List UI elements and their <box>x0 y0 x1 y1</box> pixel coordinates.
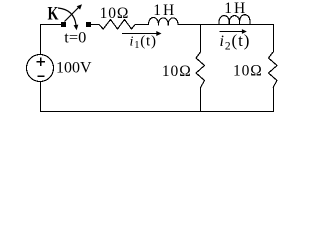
node A junction wire down from top <box>200 24 202 53</box>
bottom wire <box>40 111 274 113</box>
inductor L2 (1H, 3 humps) <box>219 15 250 25</box>
resistor R2 (10 ohm, vertical zigzag, middle branch) <box>196 52 205 88</box>
label t=0 <box>64 29 86 46</box>
right rail top wire down to R3 <box>273 24 275 53</box>
label 1H (L2) <box>224 0 247 17</box>
resistor R1 (10 ohm, horizontal zigzag) <box>99 20 135 30</box>
switch closing arc arrow <box>58 8 78 30</box>
label i1(t) <box>130 33 157 51</box>
svg-text:1H: 1H <box>224 0 247 17</box>
switch contact (left) <box>61 22 66 27</box>
label 10 ohm (R1) <box>100 5 130 22</box>
label 10 ohm (R2) <box>162 63 192 80</box>
label 10 ohm (R3) <box>233 63 263 80</box>
switch blade with arrow <box>65 4 83 21</box>
switch contact (right) <box>86 22 91 27</box>
wire R2 to bottom rail <box>200 88 202 113</box>
inductor L1 (1H, 3 humps) <box>149 17 179 25</box>
current arrow i2(t) <box>220 29 247 34</box>
wire inductor L1 to node A and on to right corner <box>178 24 274 26</box>
svg-text:i2(t): i2(t) <box>220 31 251 52</box>
svg-text:1H: 1H <box>153 2 176 19</box>
svg-text:100V: 100V <box>56 60 92 77</box>
svg-text:i1(t): i1(t) <box>130 33 157 51</box>
wire voltage source to bottom rail <box>40 82 42 113</box>
svg-text:10Ω: 10Ω <box>162 63 192 80</box>
wire resistor R1 to inductor L1 <box>135 24 149 26</box>
svg-text:K: K <box>48 4 59 24</box>
label 100V <box>56 60 92 77</box>
switch K label <box>48 4 59 24</box>
label i2(t) <box>220 31 251 52</box>
svg-text:10Ω: 10Ω <box>233 63 263 80</box>
svg-text:t=0: t=0 <box>64 29 86 46</box>
label 1H (L1) <box>153 2 176 19</box>
voltage source V1 (100V) <box>27 55 54 82</box>
wire from right contact to resistor R1 <box>90 24 100 26</box>
wire R3 to bottom rail <box>273 88 275 113</box>
svg-text:10Ω: 10Ω <box>100 5 130 22</box>
current arrow i1(t) <box>122 31 162 36</box>
resistor R3 (10 ohm, vertical zigzag, right branch) <box>269 52 278 88</box>
wire top-left from switch to left rail corner <box>41 25 62 55</box>
